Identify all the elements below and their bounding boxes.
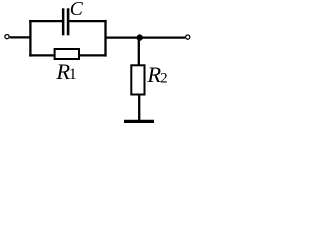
wire: top branch, node A to capacitor left plate — [29, 20, 62, 22]
svg-text:C: C — [70, 0, 84, 20]
wire: right vertical bus of parallel block (node B) — [104, 20, 106, 57]
wire: left vertical bus of parallel block (node A) — [29, 20, 31, 57]
wire: resistor R2 down to ground — [138, 95, 140, 122]
wire: bottom branch, resistor R1 to node B — [80, 54, 107, 56]
resistor R2 (box) — [131, 65, 144, 94]
wire: bottom branch, node A to resistor R1 — [29, 54, 53, 56]
node: junction dot (solder point) — [137, 34, 143, 40]
terminal: right output port — [186, 35, 190, 39]
wire: input terminal to node A (left of parallel RC) — [10, 36, 31, 38]
capacitor C: left plate — [62, 8, 65, 35]
terminal: left input port — [5, 35, 9, 39]
svg-text:R2: R2 — [146, 62, 167, 87]
wire: top branch, capacitor right plate to node B — [69, 20, 106, 22]
svg-text:R1: R1 — [55, 59, 76, 84]
capacitor C: right plate — [67, 8, 70, 35]
wire: junction down to resistor R2 — [138, 38, 140, 66]
ground symbol — [124, 120, 154, 123]
wire: node B to output terminal — [106, 36, 186, 38]
resistor R1 (box) — [55, 49, 79, 59]
